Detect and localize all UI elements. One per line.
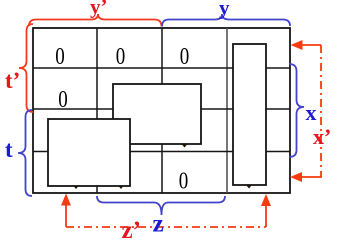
svg-text:y’: y’: [90, 0, 108, 19]
red arrow bottom-left pointing up at grid bottom: [65, 204, 67, 227]
svg-text:t’: t’: [5, 68, 20, 93]
svg-text:0: 0: [116, 44, 126, 70]
svg-text:t: t: [5, 137, 13, 162]
left blue brace rows 3-4 (t): [18, 110, 32, 196]
red dash-dot line right side vertical: [320, 45, 322, 177]
svg-text:0: 0: [180, 44, 190, 70]
svg-text:x: x: [306, 100, 317, 125]
grid vertical line col2/3: [161, 28, 163, 193]
group rectangle tall right (col4): [233, 44, 266, 185]
left red brace rows 1-2 (t'): [19, 24, 33, 112]
grid horizontal line row2/3: [33, 108, 290, 110]
svg-text:x’: x’: [313, 124, 331, 149]
red arrow top-right pointing left at grid: [302, 44, 321, 46]
red arrow bottom-right pointing left at grid: [302, 176, 322, 178]
bottom blue brace columns 2-3 (z): [97, 196, 225, 215]
tick under middle rect: [182, 145, 187, 148]
svg-text:z: z: [153, 211, 164, 238]
group rectangle middle (rows2-3 cols2-3): [113, 84, 201, 144]
top blue brace over columns 3-4 (y): [162, 14, 290, 27]
svg-text:y: y: [219, 0, 230, 20]
svg-text:0: 0: [179, 169, 189, 195]
grid horizontal line row1/2: [33, 67, 290, 69]
svg-text:0: 0: [58, 87, 68, 113]
red arrow bottom-right pointing up at grid bottom: [265, 205, 267, 227]
grid vertical line col3/4: [226, 28, 228, 193]
tick under tall rect: [247, 186, 252, 189]
grid vertical line col1/2: [96, 28, 98, 193]
tick under bottom-left rect 1: [74, 186, 79, 189]
group rectangle bottom-left (rows3-4 cols1-2): [48, 119, 130, 186]
red dash-dot line bottom horizontal: [66, 226, 266, 228]
grid horizontal line row3/4: [33, 151, 290, 153]
svg-text:z’: z’: [122, 217, 141, 244]
right blue brace rows 2-3 (x): [289, 64, 304, 157]
top red brace over columns 1-2 (y'): [29, 14, 162, 27]
K-map grid outer border: [33, 28, 290, 193]
svg-text:0: 0: [55, 44, 65, 70]
tick under bottom-left rect 2: [119, 186, 124, 189]
